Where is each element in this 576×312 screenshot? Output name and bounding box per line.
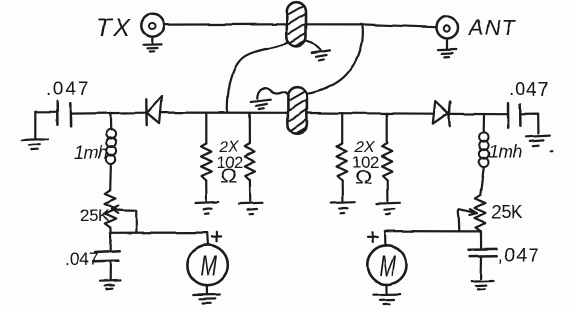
wire (R6 bottom junction to C4 and meter M2) xyxy=(385,231,481,234)
label 1mh (L2) xyxy=(489,142,523,162)
label .047 (C3) xyxy=(509,80,549,101)
svg-text:25K: 25K xyxy=(492,202,523,222)
ground (below M2) xyxy=(374,285,400,305)
wire (top main line TX to ANT) xyxy=(164,24,436,27)
svg-text:ANT: ANT xyxy=(467,15,517,40)
svg-text:25K: 25K xyxy=(80,206,110,225)
ground (below C2) xyxy=(100,280,121,289)
ground (below M1) xyxy=(193,285,220,303)
connector J2 (ANT coax jack) xyxy=(436,17,458,39)
wire (R5 bottom junction to C2 and meter) xyxy=(110,228,207,234)
inductor L1 (1mh) xyxy=(106,113,116,191)
ground (far left, sense line input) xyxy=(22,112,48,150)
potentiometer R5 (25K) xyxy=(105,190,137,232)
ground (below TX jack) xyxy=(144,37,162,52)
potentiometer R6 (25K) xyxy=(458,195,485,231)
wire (T1 secondary right end to ground) xyxy=(305,41,321,51)
meter M1 xyxy=(187,245,227,285)
connector J1 (TX coax jack) xyxy=(141,14,163,36)
wire (T2 secondary up to top line, big right curve) xyxy=(304,25,363,95)
wire (C1 to diode D1, junction with L1) xyxy=(71,112,146,115)
resistor R1 (102 ohm) xyxy=(201,113,211,201)
resistor R4 (102 ohm) xyxy=(382,113,392,201)
svg-text:Ω: Ω xyxy=(355,168,373,189)
diode D2 (points right) xyxy=(433,101,450,126)
svg-text:.047: .047 xyxy=(46,79,91,100)
resistor R3 (102 ohm) xyxy=(337,113,347,201)
svg-text:TX: TX xyxy=(96,14,132,42)
label ,047 (C4) xyxy=(498,246,540,267)
ground (below R3) xyxy=(331,202,355,213)
capacitor C3 (.047 series right) xyxy=(508,103,520,128)
svg-text:,047: ,047 xyxy=(498,246,540,267)
label TX xyxy=(96,14,132,42)
label 25K (R5) xyxy=(80,206,110,225)
ground (right end of sense line) xyxy=(527,136,552,152)
transformer T2 (toroid on sense line) xyxy=(288,87,307,134)
transformer T1 (toroid on main line) xyxy=(287,2,306,46)
node + (M2 positive terminal) xyxy=(368,231,386,245)
wire (C3 to right ground) xyxy=(520,114,538,133)
label .047 (C2) xyxy=(65,249,99,269)
label 2X (right resistor pair) xyxy=(354,139,376,156)
label 25K (R6) xyxy=(492,202,523,222)
capacitor C1 (.047 series left) xyxy=(57,101,70,126)
svg-text:1mh: 1mh xyxy=(74,143,108,163)
label ohm (right resistor pair) xyxy=(355,168,373,189)
svg-text:1mh: 1mh xyxy=(489,142,523,162)
ground (below R2) xyxy=(239,203,263,214)
capacitor C4 (.047 shunt right) xyxy=(469,231,497,278)
ground (below R4) xyxy=(376,203,400,214)
svg-text:.047: .047 xyxy=(509,80,549,101)
label ANT xyxy=(467,15,517,40)
label ohm (left resistor pair) xyxy=(220,166,238,187)
wire (D1 to T2, sense line left segment) xyxy=(161,111,288,113)
label 102 (left resistor pair) xyxy=(216,153,243,172)
wire (T1 secondary to sense line, big left curve) xyxy=(227,43,288,113)
label 1mh (L1) xyxy=(74,143,108,163)
label 102 (right resistor pair) xyxy=(352,153,379,172)
ground (T1 right end) xyxy=(312,50,330,60)
label .047 (C1) xyxy=(46,79,91,100)
ground (below ANT jack) xyxy=(438,39,456,57)
svg-text:M: M xyxy=(379,250,396,283)
node + (M1 positive terminal) xyxy=(207,232,221,244)
meter M2 xyxy=(367,245,406,284)
diode D1 (points left) xyxy=(146,96,162,125)
wire (D2 to C3, junction with L2) xyxy=(450,113,508,115)
wire (left end to C1) xyxy=(35,111,56,113)
svg-text:M: M xyxy=(200,250,217,283)
ground (below R1) xyxy=(195,202,219,213)
wire (T2 to D2, sense line right segment) xyxy=(307,112,433,115)
label 2X (left resistor pair) xyxy=(218,139,240,156)
svg-text:Ω: Ω xyxy=(220,166,238,187)
wire (T2 winding left end squiggle) xyxy=(257,88,288,98)
resistor R2 (102 ohm) xyxy=(245,113,255,201)
capacitor C2 (.047 shunt left) xyxy=(93,233,120,280)
inductor L2 (1mh) xyxy=(479,114,489,195)
ground (T2 left end) xyxy=(251,100,270,109)
svg-text:.047: .047 xyxy=(65,249,99,269)
ground (below C4) xyxy=(472,281,494,290)
